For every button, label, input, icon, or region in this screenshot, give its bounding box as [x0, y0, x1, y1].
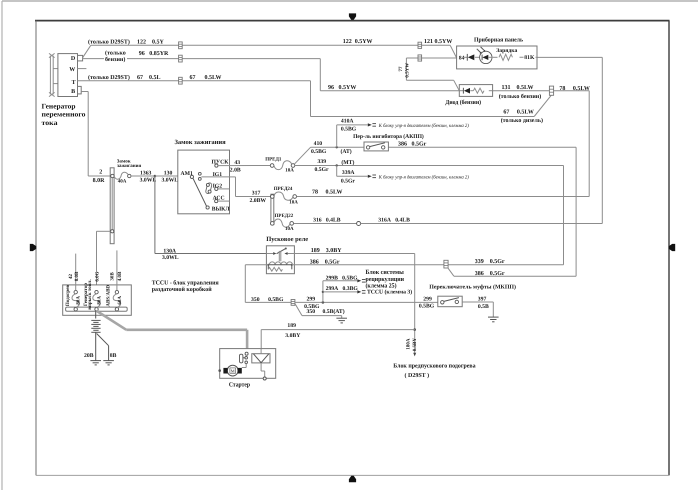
svg-text:299: 299: [307, 297, 316, 303]
svg-text:Пусковое реле: Пусковое реле: [266, 236, 308, 243]
svg-text:T: T: [72, 80, 76, 86]
svg-text:30B: 30B: [110, 272, 116, 281]
svg-text:впрыск топл.: впрыск топл.: [88, 279, 93, 310]
svg-text:IG1: IG1: [213, 172, 223, 178]
svg-text:122 0.5YW: 122 0.5YW: [343, 39, 373, 45]
svg-text:121 0.5YW: 121 0.5YW: [424, 39, 452, 45]
svg-text:0.5B(АТ): 0.5B(АТ): [323, 309, 345, 315]
svg-text:40A: 40A: [118, 179, 127, 185]
svg-text:8B: 8B: [110, 353, 117, 359]
svg-text:(только бензин): (только бензин): [499, 93, 542, 100]
svg-text:TCCU (клемма 3): TCCU (клемма 3): [367, 289, 412, 295]
svg-text:410: 410: [314, 141, 323, 147]
svg-text:386 0.5Gr: 386 0.5Gr: [398, 141, 427, 147]
svg-text:80A: 80A: [76, 296, 82, 305]
svg-text:96 0.5YW: 96 0.5YW: [328, 85, 356, 91]
svg-text:43: 43: [234, 160, 240, 166]
svg-text:20B: 20B: [84, 353, 94, 359]
svg-text:Пер-ль ингибитора (АКПП): Пер-ль ингибитора (АКПП): [353, 133, 424, 140]
svg-text:Приборная панель: Приборная панель: [474, 37, 524, 44]
svg-text:B: B: [71, 89, 75, 95]
svg-text:316 0.4LB: 316 0.4LB: [313, 218, 341, 224]
svg-text:4.0B: 4.0B: [117, 271, 123, 281]
svg-text:299: 299: [423, 297, 432, 303]
svg-text:2.0BW: 2.0BW: [250, 198, 267, 204]
svg-text:67 0.5L: 67 0.5L: [137, 75, 161, 81]
svg-text:131 0.5LW: 131 0.5LW: [502, 85, 534, 91]
svg-text:ПРЕД22: ПРЕД22: [275, 213, 294, 219]
svg-text:К блоку упр-я двигателем (бенз: К блоку упр-я двигателем (бензин, клемма…: [378, 175, 469, 181]
svg-text:78 0.5LW: 78 0.5LW: [559, 86, 589, 92]
svg-text:77: 77: [398, 66, 404, 72]
svg-text:К блоку упр-я двигателем (бенз: К блоку упр-я двигателем (бензин, клемма…: [378, 123, 469, 129]
svg-text:0.5B: 0.5B: [478, 304, 489, 310]
svg-text:3.0WL: 3.0WL: [162, 178, 179, 184]
svg-text:1363: 1363: [140, 170, 152, 176]
svg-text:ПУСК: ПУСК: [212, 159, 230, 165]
svg-text:(только D29ST): (только D29ST): [88, 74, 130, 81]
svg-text:Генератор: Генератор: [42, 102, 76, 110]
svg-text:10A: 10A: [285, 226, 294, 232]
svg-text:316A 0.4LB: 316A 0.4LB: [378, 218, 410, 224]
svg-text:350 0.5BG: 350 0.5BG: [251, 297, 284, 303]
svg-text:67 0.5LW: 67 0.5LW: [190, 75, 222, 81]
svg-text:84: 84: [459, 55, 465, 61]
svg-text:D: D: [71, 56, 76, 62]
svg-text:299A 0.3BG: 299A 0.3BG: [326, 286, 359, 292]
svg-text:Стартер: Стартер: [229, 381, 250, 388]
svg-text:339A: 339A: [342, 170, 356, 176]
svg-text:Замок зажигания: Замок зажигания: [175, 139, 227, 146]
svg-text:96 0.85YR: 96 0.85YR: [139, 51, 169, 57]
svg-text:3.0BY: 3.0BY: [285, 333, 300, 339]
svg-text:переменного: переменного: [42, 111, 86, 119]
svg-text:( D29ST ): ( D29ST ): [405, 372, 430, 379]
svg-text:ABS/ABD: ABS/ABD: [105, 285, 111, 307]
svg-text:339 0.5Gr: 339 0.5Gr: [475, 259, 505, 265]
svg-text:Зарядка: Зарядка: [496, 48, 517, 54]
svg-text:ПРЕД24: ПРЕД24: [274, 186, 293, 192]
svg-text:6.0G: 6.0G: [94, 271, 100, 281]
svg-text:0.5BY: 0.5BY: [412, 338, 418, 352]
svg-text:339: 339: [318, 159, 327, 165]
svg-text:Подогрев: Подогрев: [65, 285, 71, 307]
svg-text:0.5BG: 0.5BG: [419, 303, 435, 309]
svg-text:ПРЕД1: ПРЕД1: [265, 156, 282, 162]
svg-text:0.5Gr: 0.5Gr: [341, 178, 356, 184]
svg-text:80A: 80A: [97, 296, 103, 305]
svg-text:W: W: [69, 67, 75, 73]
svg-text:(только дизель): (только дизель): [501, 117, 543, 124]
svg-text:0.5Gr: 0.5Gr: [315, 167, 330, 173]
svg-text:0.5BG: 0.5BG: [311, 149, 327, 155]
svg-text:тока: тока: [42, 119, 58, 127]
svg-text:8.0R: 8.0R: [93, 178, 106, 184]
svg-text:(АТ): (АТ): [341, 149, 352, 155]
svg-text:189 3.0BY: 189 3.0BY: [311, 248, 343, 254]
svg-text:бензин): бензин): [105, 56, 125, 63]
svg-text:130: 130: [164, 170, 173, 176]
svg-text:раздаточной коробкой: раздаточной коробкой: [152, 286, 212, 293]
svg-text:10A: 10A: [289, 200, 298, 206]
svg-text:(только D29ST): (только D29ST): [88, 39, 130, 46]
svg-text:0.5YW: 0.5YW: [404, 63, 410, 78]
svg-text:189: 189: [287, 323, 296, 329]
svg-text:3.0WL: 3.0WL: [140, 178, 157, 184]
svg-text:410A: 410A: [341, 118, 355, 124]
svg-text:67 0.5LW: 67 0.5LW: [503, 110, 533, 116]
svg-text:122 0.5Y: 122 0.5Y: [137, 40, 165, 46]
svg-text:2: 2: [99, 170, 102, 176]
svg-text:81K: 81K: [524, 55, 535, 61]
svg-text:60A: 60A: [117, 296, 123, 305]
svg-text:386 0.5Gr: 386 0.5Gr: [475, 271, 505, 277]
svg-text:299B 0.5BG: 299B 0.5BG: [326, 276, 358, 282]
svg-text:317: 317: [252, 190, 261, 196]
svg-text:3.0WL: 3.0WL: [162, 255, 179, 261]
svg-text:386 0.5Gr: 386 0.5Gr: [310, 260, 340, 266]
svg-text:42: 42: [68, 274, 74, 280]
svg-text:8.0B: 8.0B: [74, 271, 80, 281]
svg-text:0.5BG: 0.5BG: [341, 127, 357, 133]
svg-text:2.0B: 2.0B: [230, 168, 241, 174]
svg-text:350: 350: [307, 309, 316, 315]
svg-text:(только: (только: [105, 50, 126, 57]
svg-text:M: M: [231, 368, 235, 373]
svg-text:Переключатель муфты (МКПП): Переключатель муфты (МКПП): [429, 283, 516, 290]
svg-text:(МТ): (МТ): [341, 160, 354, 166]
svg-text:78 0.5LW: 78 0.5LW: [312, 190, 342, 196]
svg-text:10A: 10A: [285, 168, 294, 174]
svg-text:180A: 180A: [405, 338, 411, 350]
svg-text:ВЫКЛ: ВЫКЛ: [212, 206, 231, 212]
svg-text:Блок предпускового подогрева: Блок предпускового подогрева: [393, 362, 475, 369]
svg-text:зажигания: зажигания: [117, 164, 142, 169]
svg-text:Диод (бензин): Диод (бензин): [445, 99, 481, 106]
